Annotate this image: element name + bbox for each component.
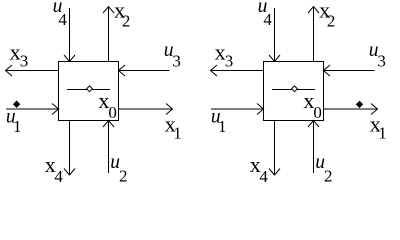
- svg-text:2: 2: [119, 166, 128, 185]
- label u1 (right diagram): [211, 107, 227, 136]
- svg-text:4: 4: [259, 167, 268, 186]
- input arrow u2 (bottom right, into box) (right diagram): [308, 121, 319, 174]
- label x3 (right diagram): [215, 40, 234, 71]
- svg-text:2: 2: [122, 11, 130, 30]
- label u3 (left diagram): [164, 40, 181, 70]
- output arrow x1 (right bottom, out of box) (left diagram): [119, 104, 173, 115]
- label x1 (left diagram): [165, 112, 182, 143]
- label x2 (right diagram): [319, 0, 335, 30]
- label x2 (left diagram): [114, 0, 130, 30]
- output arrow x1 (right bottom, out of box) (right diagram): [324, 104, 378, 115]
- output arrow x3 (left top, out of box) (left diagram): [6, 65, 59, 76]
- label x0 (left diagram): [98, 88, 117, 122]
- output arrow x2 (top right, out of box) (left diagram): [103, 7, 114, 62]
- output arrow x3 (left top, out of box) (right diagram): [211, 65, 264, 76]
- internal state trajectory line (right diagram): [272, 89, 315, 91]
- state node (open diamond) (right diagram): [292, 86, 298, 92]
- label u2 (right diagram): [315, 152, 332, 186]
- svg-text:2: 2: [327, 11, 336, 30]
- svg-text:0: 0: [108, 103, 117, 122]
- box (system block) (left diagram): [59, 62, 119, 121]
- label x3 (left diagram): [10, 40, 29, 71]
- svg-text:1: 1: [218, 117, 227, 136]
- svg-text:1: 1: [13, 117, 22, 136]
- input arrow u4 (top left, into box) (right diagram): [269, 8, 280, 62]
- svg-text:1: 1: [173, 124, 182, 143]
- output arrow x4 (bottom left, out of box) (right diagram): [269, 121, 280, 176]
- box (system block) (right diagram): [264, 62, 324, 121]
- input arrow u1 (left bottom, into box) (right diagram): [211, 104, 264, 115]
- label u3 (right diagram): [369, 40, 386, 70]
- label u4 (left diagram): [53, 0, 68, 29]
- label u2 (left diagram): [110, 152, 127, 186]
- output arrow x2 (top right, out of box) (right diagram): [308, 7, 319, 62]
- svg-text:0: 0: [313, 103, 322, 122]
- input arrow u3 (right top, into box) (right diagram): [324, 65, 375, 76]
- input arrow u4 (top left, into box) (left diagram): [64, 8, 75, 62]
- svg-text:3: 3: [20, 51, 29, 70]
- svg-text:4: 4: [54, 167, 63, 186]
- state node (open diamond) (left diagram): [87, 86, 93, 92]
- svg-text:1: 1: [378, 124, 387, 143]
- svg-text:2: 2: [324, 166, 333, 185]
- svg-text:3: 3: [377, 51, 386, 70]
- input arrow u3 (right top, into box) (left diagram): [119, 65, 170, 76]
- label u4 (right diagram): [258, 0, 273, 29]
- label x1 (right diagram): [370, 112, 387, 143]
- label x0 (right diagram): [303, 88, 322, 122]
- marker diamond on x1 output (right diagram): [357, 101, 363, 107]
- input arrow u2 (bottom right, into box) (left diagram): [103, 121, 114, 174]
- label u1 (left diagram): [6, 107, 22, 136]
- svg-text:3: 3: [225, 51, 234, 70]
- internal state trajectory line (left diagram): [67, 89, 110, 91]
- marker diamond on u1 input (left diagram): [14, 101, 20, 107]
- svg-text:3: 3: [172, 51, 181, 70]
- label x4 (left diagram): [45, 152, 64, 186]
- label x4 (right diagram): [250, 152, 269, 186]
- svg-text:4: 4: [58, 10, 67, 29]
- input arrow u1 (left bottom, into box) (left diagram): [6, 104, 59, 115]
- output arrow x4 (bottom left, out of box) (left diagram): [64, 121, 75, 176]
- svg-text:4: 4: [263, 10, 272, 29]
